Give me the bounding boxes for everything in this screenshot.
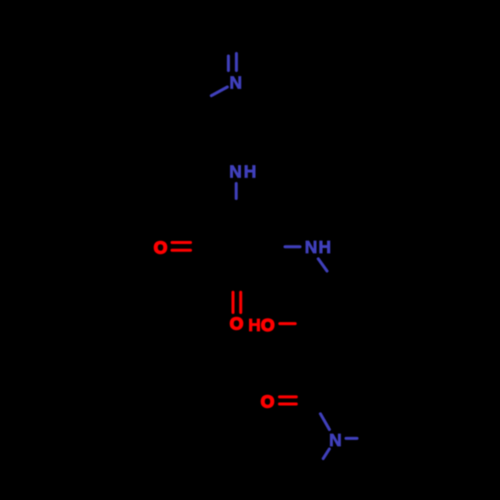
- wire N3 to right methyl: [346, 437, 357, 440]
- carbonyl C=O1 double bond: [172, 243, 191, 251]
- wire NH down to ring carbon: [235, 184, 238, 199]
- svg-text:H: H: [248, 315, 261, 335]
- wire C to NH (right), left stub: [285, 245, 300, 248]
- svg-text:O: O: [230, 314, 244, 334]
- svg-text:O: O: [261, 392, 275, 412]
- svg-text:N: N: [305, 237, 318, 257]
- svg-text:O: O: [261, 315, 275, 335]
- wire N-C2 of pyridine: [211, 87, 227, 96]
- wire NH down-right to CH2: [318, 259, 327, 271]
- svg-text:N: N: [230, 73, 243, 93]
- wire N3 to lower-left methyl: [323, 449, 329, 459]
- amide C=O3 double bond: [280, 397, 297, 404]
- carbonyl C=O2 double bond: [233, 292, 241, 312]
- svg-text:H: H: [244, 161, 257, 181]
- svg-text:H: H: [319, 237, 332, 257]
- wire amide C to N3: [320, 414, 329, 430]
- pyridine C=N double bond: [228, 54, 236, 71]
- wire HO to C: [280, 322, 295, 325]
- svg-text:N: N: [329, 430, 342, 450]
- svg-text:O: O: [154, 237, 168, 257]
- svg-text:N: N: [229, 161, 242, 181]
